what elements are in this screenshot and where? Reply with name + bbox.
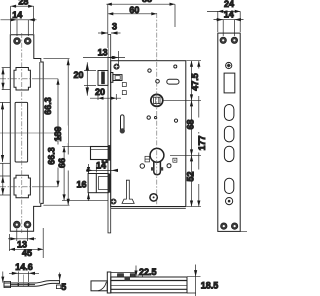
case bottom double line xyxy=(111,207,186,209)
strike plate top view bar xyxy=(4,281,60,288)
far-left cut dims xyxy=(0,68,11,195)
follower hub xyxy=(151,94,163,106)
dim 3 xyxy=(98,31,121,34)
faceplate top screw right xyxy=(231,37,237,43)
case vertical centerline xyxy=(156,13,158,205)
dim 66.3 lower text xyxy=(47,145,62,168)
svg-text:68: 68 xyxy=(185,119,195,129)
faceplate phillips screw xyxy=(226,62,232,68)
svg-text:85: 85 xyxy=(142,0,152,4)
dim 60 xyxy=(108,12,157,15)
two tiny squares xyxy=(122,83,126,87)
dim 66 text xyxy=(57,156,72,170)
svg-text:60: 60 xyxy=(129,5,139,15)
strike plate outline (left view) xyxy=(10,35,43,231)
strike lip end box xyxy=(56,285,60,289)
dim 14 line xyxy=(1,18,37,36)
dim 13 top text xyxy=(97,48,109,58)
top view centerline xyxy=(22,275,24,288)
svg-text:66: 66 xyxy=(57,158,67,168)
dim 13 top xyxy=(83,51,125,66)
dim 14 right xyxy=(214,18,244,36)
vertical centerline strike plate xyxy=(21,33,23,233)
latch bolt head xyxy=(98,71,122,86)
dim 180 line xyxy=(67,59,70,206)
latch keeper hole (spool shape) xyxy=(14,68,30,91)
grommet circle-dot xyxy=(150,194,157,201)
svg-text:66.3: 66.3 xyxy=(43,97,53,115)
dim 180 extension top xyxy=(43,58,69,60)
faceplate dark at cylinder xyxy=(108,174,111,193)
dim 14.6 xyxy=(9,272,39,283)
dim 20 horizontal xyxy=(90,91,121,101)
dim 47.5 text xyxy=(190,69,203,95)
dim 66.3 upper line xyxy=(56,79,59,133)
deadbolt keeper centerline horizontal xyxy=(0,186,32,188)
dim 68 text xyxy=(185,118,200,133)
horizontal oval slot xyxy=(167,79,179,84)
case bottom left phillips screw xyxy=(111,199,116,204)
dim 66 extension top xyxy=(62,145,90,147)
ext lines left xyxy=(2,67,11,69)
dim 66.3 upper text xyxy=(43,96,57,116)
cut arrow bottom left xyxy=(1,272,4,283)
lock centerline horizontal xyxy=(0,132,59,134)
strike plate top screw right xyxy=(24,38,31,45)
cylinder small square left pair xyxy=(145,156,150,162)
case top left phillips screw xyxy=(114,64,119,69)
lock case rectangle xyxy=(111,61,186,207)
svg-text:22.5: 22.5 xyxy=(139,267,157,277)
deadbolt head xyxy=(91,147,109,164)
dim line B 177 xyxy=(197,61,200,207)
faceplate dark section at deadbolt xyxy=(108,145,111,161)
T slot lower xyxy=(122,180,134,203)
svg-text:14.6: 14.6 xyxy=(15,262,33,272)
central rectangular hole xyxy=(15,102,28,162)
dim 85 cut (top) xyxy=(106,3,175,27)
faceplate edge-on xyxy=(108,35,111,233)
lock body top view xyxy=(111,277,187,293)
dim 66.3 lower line xyxy=(56,133,59,187)
dim 28 line xyxy=(11,5,34,34)
faceplate section at latch xyxy=(107,71,109,86)
stub line bottom right xyxy=(240,230,247,232)
faceplate bottom screw right xyxy=(231,223,237,229)
latch centerline horizontal xyxy=(0,78,32,80)
dim 52 text xyxy=(186,170,201,185)
small circle left of oval xyxy=(156,80,160,84)
faceplate extension up xyxy=(107,4,109,34)
faceplate top screw left xyxy=(220,37,226,43)
dim 14 cylinder xyxy=(86,165,118,173)
faceplate oval 1 xyxy=(224,105,234,121)
cylinder small circle left xyxy=(140,164,144,168)
svg-text:18.5: 18.5 xyxy=(201,280,219,290)
dim 14 right text xyxy=(224,10,235,20)
small circle top center xyxy=(148,69,151,72)
faceplate latch opening xyxy=(224,73,235,93)
svg-text:28: 28 xyxy=(18,0,28,7)
right side dim extensions xyxy=(164,61,202,207)
svg-text:66.3: 66.3 xyxy=(47,147,57,165)
cylinder housing side xyxy=(88,174,108,193)
svg-text:20: 20 xyxy=(95,87,105,97)
faceplate circle-dot xyxy=(226,198,233,205)
svg-text:14: 14 xyxy=(224,10,234,20)
dim 180 extension bottom xyxy=(43,204,69,206)
cylinder side nubs xyxy=(151,167,154,170)
top castellated bumps xyxy=(118,274,143,281)
dim 66 line (between views) xyxy=(63,146,66,200)
svg-text:5: 5 xyxy=(61,282,66,292)
svg-text:16: 16 xyxy=(76,179,86,189)
vertical capsule slot xyxy=(120,115,125,134)
cut dim latch hole xyxy=(2,68,4,90)
svg-text:45: 45 xyxy=(22,248,32,258)
strike plate top screw left xyxy=(14,38,21,45)
svg-text:52: 52 xyxy=(186,171,196,181)
faceplate bar end view xyxy=(107,272,111,293)
deadbolt keeper hole (spool shape) xyxy=(14,175,30,197)
svg-text:14: 14 xyxy=(12,10,22,20)
euro cylinder profile xyxy=(150,148,164,174)
dim 66 extension bottom xyxy=(62,199,108,201)
svg-text:24: 24 xyxy=(224,0,234,9)
strike plate bottom screw right xyxy=(24,221,31,228)
right end box xyxy=(187,277,196,293)
svg-text:180: 180 xyxy=(53,126,63,141)
dim 13 bottom line xyxy=(8,229,36,241)
faceplate oval 3 xyxy=(224,146,234,161)
dim 22.5 xyxy=(134,266,137,278)
faceplate bottom screw left xyxy=(221,223,227,229)
dim 45 line xyxy=(10,228,44,258)
dim 16 xyxy=(87,164,90,201)
svg-text:14: 14 xyxy=(96,161,106,171)
top strip line xyxy=(111,272,136,277)
small circle top right xyxy=(174,65,177,68)
svg-text:13: 13 xyxy=(98,48,108,58)
small circles mid case xyxy=(147,116,150,119)
faceplate outline xyxy=(218,33,240,231)
faceplate oval 2 xyxy=(224,126,234,142)
dim 5 arrow xyxy=(58,273,61,281)
small square with dot right xyxy=(173,158,177,162)
dim 24 xyxy=(207,10,240,32)
cut dim large hole xyxy=(2,102,4,162)
cylinder small circle right xyxy=(167,164,171,168)
dim 180 text xyxy=(53,126,68,144)
faceplate oval 4 xyxy=(225,178,234,193)
cut dim keeper hole 2 xyxy=(2,163,4,195)
svg-text:177: 177 xyxy=(197,135,207,150)
dim 20 latch height xyxy=(84,62,96,95)
strike plate bottom screw left xyxy=(13,221,20,228)
strike plate lip bend line xyxy=(39,62,41,203)
dim 18.5 arrow xyxy=(187,265,200,296)
dim line A 47.5/68/52 xyxy=(190,61,193,207)
svg-text:47.5: 47.5 xyxy=(190,73,200,91)
svg-text:20: 20 xyxy=(73,70,83,80)
latch spring box xyxy=(113,75,122,81)
svg-text:3: 3 xyxy=(112,22,117,32)
latch top view xyxy=(91,281,107,291)
latch tail xyxy=(111,73,113,83)
